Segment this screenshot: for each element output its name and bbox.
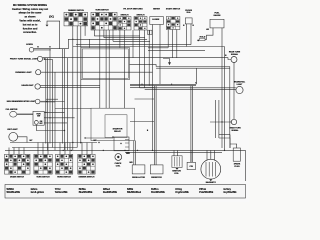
wire v31a (190, 86, 192, 163)
wire riser 5 (37, 143, 39, 155)
wire fuel meter (17, 113, 33, 115)
wire magneto feed c (214, 150, 216, 160)
wire h main bottom bus b (125, 151, 222, 153)
svg-text:TURN SWITCH: TURN SWITCH (36, 177, 50, 179)
wire h12 (12, 147, 77, 149)
junction 3 (80, 142, 81, 143)
junction 13 (171, 84, 172, 85)
inline connector MJ (148, 30, 153, 34)
starter relay box (114, 137, 129, 151)
wire feeder c (113, 40, 150, 42)
svg-text:CDI: CDI (189, 166, 193, 168)
wire right edge (245, 150, 247, 181)
svg-text:FUL METER: FUL METER (6, 109, 18, 111)
svg-text:DIMMER SWITCH: DIMMER SWITCH (79, 177, 95, 179)
svg-text:TURN SWITCH: TURN SWITCH (95, 10, 109, 12)
wire h top bus 2 (76, 44, 191, 46)
junction 9 (124, 150, 125, 151)
svg-text:RLA: RLA (187, 11, 192, 14)
svg-text:KEYLIGHT: KEYLIGHT (7, 129, 18, 131)
regulator box (132, 165, 145, 174)
wire v23 (176, 30, 178, 58)
wire v3 (72, 26, 74, 150)
junction 4 (98, 142, 99, 143)
turn connector (34, 154, 52, 174)
run switch box (33, 111, 44, 125)
wire coil feed a (173, 150, 175, 155)
resistor box (150, 165, 163, 174)
wire horn a (34, 48, 69, 50)
wire riser 13 (91, 143, 93, 155)
ignition switch connector (5, 154, 31, 174)
wire v32a (133, 141, 135, 165)
wire v right step (229, 135, 231, 149)
svg-text:connection.: connection. (23, 31, 37, 34)
svg-text:Yel/Grn/Blk: Yel/Grn/Blk (55, 191, 68, 194)
svg-text:PLUG: PLUG (234, 166, 240, 168)
wire h5 (130, 83, 196, 85)
wire vL1 (45, 58, 47, 144)
wire fuel meter thick (17, 113, 33, 115)
wire riser 7 (47, 143, 49, 155)
wire DC drop (47, 21, 60, 49)
choke relay box (185, 18, 192, 24)
pickup coil (115, 154, 122, 161)
wire v11 (105, 30, 107, 108)
ignition coil winding 3 (178, 157, 180, 167)
svg-text:FRONT TURN SIGNAL LIGHT: FRONT TURN SIGNAL LIGHT (10, 58, 39, 61)
wire riser 10 (69, 143, 71, 155)
wire v4 (76, 26, 78, 148)
svg-text:Blu/Wht/Blk: Blu/Wht/Blk (79, 191, 93, 194)
svg-text:Brn/Wht/Blk: Brn/Wht/Blk (151, 191, 165, 194)
horn (29, 47, 34, 52)
wire horn b (34, 49, 51, 51)
svg-text:SIGNAL: SIGNAL (231, 129, 239, 132)
wire h bus grids (10, 142, 97, 144)
wire magneto feed b (210, 150, 212, 159)
svg-text:SWITCH: SWITCH (121, 14, 129, 16)
wire h10 (219, 134, 230, 136)
wire v13 (119, 30, 121, 48)
rear turn signal light right (231, 57, 237, 63)
wire h6 (130, 87, 154, 89)
start switch connector (166, 17, 180, 30)
headlight (35, 84, 40, 89)
svg-text:Caution: Wiring colors may not: Caution: Wiring colors may not (12, 8, 48, 11)
wire fuel gauge to hold (205, 28, 213, 40)
wire v19 (152, 25, 154, 151)
ignition key switch (9, 132, 18, 141)
wire v6 (84, 26, 86, 36)
wire riser 1 (8, 148, 10, 155)
svg-text:SW: SW (37, 116, 40, 118)
svg-text:Red/Wht/Blk: Red/Wht/Blk (103, 191, 118, 194)
legend box (5, 185, 246, 199)
junction 12 (141, 84, 142, 85)
wire h9 (130, 121, 154, 123)
svg-text:function and: function and (23, 27, 38, 30)
starter relay pin c (125, 146, 129, 148)
wire v11b (108, 30, 110, 108)
running light (36, 70, 41, 75)
wire headlight b (40, 86, 100, 88)
magneto winding 2 (208, 162, 210, 177)
wire v8 (93, 30, 95, 36)
harness frame inner (82, 49, 128, 78)
wire v24 (186, 24, 188, 47)
svg-text:always be the same: always be the same (19, 12, 42, 15)
svg-text:Grn/Lgt/Grn: Grn/Lgt/Grn (31, 191, 45, 194)
wire v9 (99, 30, 101, 108)
ground magneto (209, 179, 212, 181)
wire riser 3 (18, 148, 20, 155)
svg-text:START SWITCH: START SWITCH (166, 8, 181, 11)
svg-text:DIMMER SWITCH: DIMMER SWITCH (68, 10, 84, 12)
svg-text:HORN: HORN (26, 44, 33, 46)
wire v31b (192, 86, 194, 163)
svg-text:MC WIRING SYSTEM WIRING: MC WIRING SYSTEM WIRING (13, 4, 47, 7)
wire vL3 (49, 49, 51, 144)
horn connector (56, 154, 73, 174)
wire vL6 (62, 49, 64, 144)
svg-text:Pnk/Wht/Blk: Pnk/Wht/Blk (199, 191, 214, 194)
ignition coil winding 2 (176, 157, 178, 167)
svg-text:(DC): (DC) (49, 16, 54, 19)
wire riser 9 (64, 143, 66, 155)
dimmer switch connector (64, 12, 88, 26)
svg-text:LH BRK: LH BRK (152, 19, 160, 21)
svg-text:SWITCH: SWITCH (137, 14, 145, 16)
junction 2 (72, 142, 73, 143)
hold sensor (200, 38, 206, 40)
svg-text:HEADLIGHT: HEADLIGHT (22, 84, 35, 87)
svg-text:GAUGE: GAUGE (214, 14, 222, 17)
junction 17 (221, 121, 222, 122)
front turn terminal (44, 58, 46, 60)
starter relay pin a (125, 139, 129, 141)
svg-text:MAGNETO: MAGNETO (206, 181, 217, 184)
wire rear turn feed (228, 58, 231, 60)
junction 7 (71, 150, 72, 151)
rear turn left base (230, 120, 233, 123)
wire v20 (159, 25, 161, 85)
wire running (41, 71, 153, 73)
wire v1 (64, 49, 66, 151)
run switch contact (35, 121, 39, 125)
wire h8 (55, 108, 91, 110)
magneto winding 1 (205, 162, 207, 177)
svg-text:Org/Grn/Blk: Org/Grn/Blk (175, 191, 189, 194)
wire h4b (156, 67, 230, 69)
wire h99 (46, 98, 58, 100)
svg-text:B/W: B/W (126, 153, 130, 155)
ground DC (46, 25, 49, 27)
wire loop center inner (105, 115, 127, 138)
magneto winding 3 (211, 162, 213, 177)
svg-text:LIGHT: LIGHT (237, 84, 244, 86)
wire riser 2 (13, 148, 15, 155)
wire v32b (135, 141, 137, 165)
junction 6 (63, 150, 64, 151)
svg-text:RUNNING LIGHT: RUNNING LIGHT (15, 72, 32, 74)
wire runsw c (44, 122, 67, 124)
wire riser 12 (86, 143, 88, 155)
wire cap feed (230, 144, 237, 148)
wire v rear circle col (233, 63, 235, 120)
wire v21 (167, 30, 169, 48)
wire front turn a (43, 57, 228, 59)
svg-text:REGULATOR: REGULATOR (132, 176, 145, 179)
wire v17 (144, 30, 146, 88)
starter relay pin b (125, 142, 129, 144)
wire v26 (221, 28, 223, 148)
wire v14 (124, 30, 126, 108)
svg-text:Blk/Wht/Red: Blk/Wht/Red (127, 191, 142, 194)
wire v10 (103, 30, 105, 38)
svg-text:Wht/Blu/Blk: Wht/Blu/Blk (7, 191, 21, 194)
connector arrow symbol (163, 59, 170, 65)
wire right step (219, 138, 230, 148)
junction high beam (46, 101, 47, 102)
wire vL5 (54, 72, 56, 150)
cdi box (187, 162, 195, 169)
ignition coil (172, 156, 182, 168)
wire v2 (66, 58, 68, 150)
wire v27 (224, 47, 226, 151)
wire high beam thick (40, 101, 55, 103)
wire runsw b (44, 117, 74, 119)
wire v7 (88, 39, 90, 47)
junction 18 (45, 112, 46, 113)
wire vL2 (47, 58, 49, 150)
front turn signal light (37, 56, 42, 61)
junction 11 (152, 150, 153, 151)
ignition coil winding 1 (174, 157, 176, 167)
wire magneto feed a (206, 150, 208, 160)
wire riser 6 (42, 143, 44, 155)
wire h main bottom bus (5, 149, 246, 151)
junction 8 (103, 150, 104, 151)
svg-text:FR. STOP SWITCHES: FR. STOP SWITCHES (123, 9, 143, 11)
wire cdi feed (190, 150, 192, 162)
wire v16 (139, 30, 141, 88)
wire front turn b (44, 59, 52, 61)
wire headlight a (40, 85, 100, 87)
svg-text:as shown: as shown (24, 16, 36, 19)
wire v12 (112, 30, 114, 41)
wire coil feed b (177, 150, 179, 155)
rear turn signal light left (231, 119, 236, 124)
svg-text:Varies with model,: Varies with model, (19, 20, 41, 23)
svg-text:OFF: OFF (39, 123, 42, 125)
high beam indicator light (35, 99, 40, 104)
wire v196 (195, 68, 197, 84)
inline connector MJ divider (149, 30, 151, 34)
junction 10 (137, 150, 138, 151)
junction 16 (112, 136, 113, 137)
connector arrow head (168, 62, 171, 65)
svg-text:SIGNAL: SIGNAL (231, 53, 239, 56)
wire h5b (130, 85, 196, 87)
svg-text:RESISTOR: RESISTOR (151, 177, 162, 179)
junction 20 (64, 130, 65, 131)
svg-text:HORN SWITCH: HORN SWITCH (57, 177, 71, 179)
front stop switch connector right (134, 17, 147, 31)
wire v30a (153, 86, 155, 165)
wire h7 (135, 98, 155, 100)
wire v30b (155, 86, 157, 165)
wire h rear turn 3 (210, 121, 231, 123)
magneto winding 4 (215, 162, 217, 177)
wire high beam (40, 101, 65, 103)
wire runsw a (44, 111, 64, 113)
svg-text:HIGH BEAM/INDICATOR LIGHT: HIGH BEAM/INDICATOR LIGHT (7, 100, 36, 103)
wire h brake b (145, 89, 236, 91)
dimmer connector (78, 154, 95, 174)
wire loop center (91, 108, 135, 140)
hold sensor terminal (197, 40, 199, 42)
wire feeder b (104, 37, 145, 39)
wire v rear right (229, 67, 231, 139)
svg-text:RELAY: RELAY (114, 130, 121, 133)
magneto (201, 159, 221, 179)
meter box (150, 17, 164, 25)
spark plug cap box (233, 148, 240, 161)
wire feeder a (94, 35, 139, 37)
wire v18 (148, 30, 150, 86)
wire v28 (218, 100, 220, 138)
wire h4 (156, 66, 230, 68)
wire h64 step (130, 65, 157, 67)
ground ignition coil (176, 168, 179, 170)
brake tail light (236, 86, 243, 93)
junction 19 (49, 117, 50, 118)
wire h top bus 3 (73, 46, 225, 48)
svg-text:Gry/Blu/Blk: Gry/Blu/Blk (223, 191, 237, 194)
fuel meter (10, 111, 17, 117)
pickup coil core (117, 156, 119, 158)
fuel gauge box (210, 19, 224, 28)
wire key right (18, 137, 27, 143)
wire v15 (132, 30, 134, 58)
wire runsw down (36, 125, 64, 130)
wire riser 8 (59, 143, 61, 155)
wire h11 (85, 137, 113, 139)
wire h brake a (140, 87, 236, 89)
svg-text:METER: METER (153, 9, 160, 11)
wire v5 (80, 26, 82, 144)
svg-text:DRAIN SWITCH: DRAIN SWITCH (10, 176, 25, 179)
wire riser 4 (23, 148, 25, 155)
harness frame outer (81, 48, 130, 80)
wire v25 (190, 24, 192, 45)
junction 15 (84, 137, 85, 138)
svg-text:but not as to: but not as to (23, 23, 38, 26)
wire h47 (148, 47, 168, 49)
wire v22 (171, 30, 173, 58)
wire h50 (148, 50, 205, 52)
junction 5 (120, 143, 121, 144)
front stop switch connector left (118, 17, 131, 31)
wire v29 (215, 100, 217, 138)
turn switch connector (91, 12, 117, 30)
wire vL4 (52, 60, 54, 148)
junction 14 (224, 150, 225, 151)
wire riser 11 (81, 143, 83, 155)
wire horn up (68, 39, 147, 48)
junction 1 (72, 39, 73, 40)
